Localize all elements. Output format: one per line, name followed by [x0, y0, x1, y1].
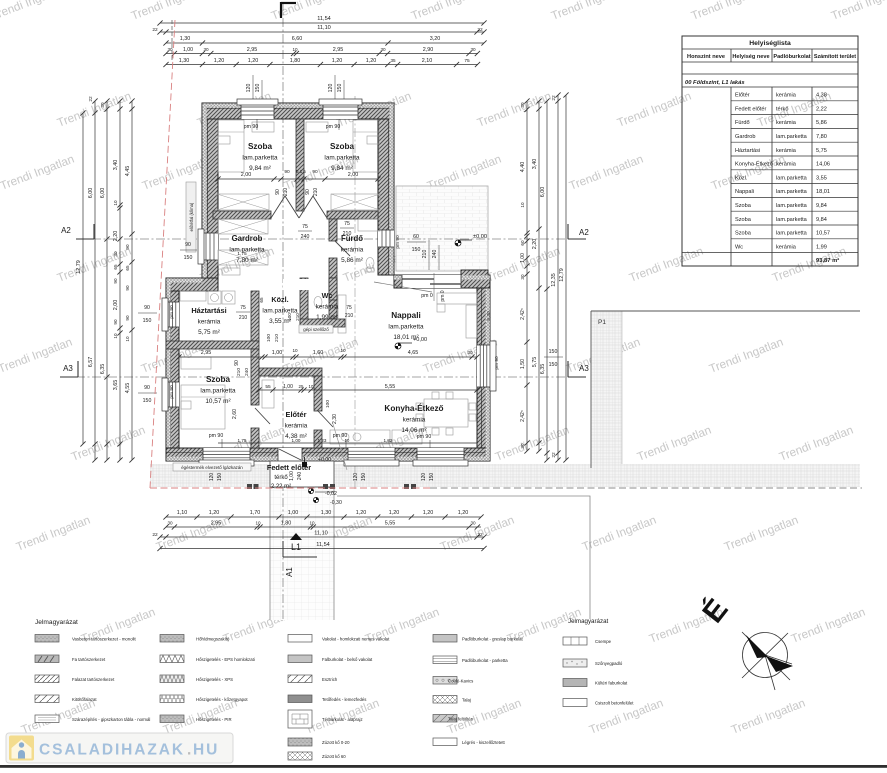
svg-text:1,30: 1,30	[180, 36, 191, 42]
svg-text:10: 10	[255, 521, 261, 526]
svg-text:150: 150	[143, 398, 152, 404]
counter haztartasi	[180, 291, 206, 301]
svg-text:90: 90	[144, 305, 150, 311]
svg-text:5,55: 5,55	[385, 384, 396, 390]
svg-text:1,20: 1,20	[423, 510, 434, 516]
svg-text:90: 90	[125, 285, 130, 291]
svg-text:75: 75	[344, 221, 350, 227]
svg-text:12,79: 12,79	[76, 260, 82, 274]
svg-text:előtétfal (klíma): előtétfal (klíma)	[189, 202, 194, 231]
svg-text:Helyiség neve: Helyiség neve	[732, 54, 769, 60]
svg-text:A2: A2	[61, 226, 71, 235]
boxed label wall shaft	[186, 182, 196, 252]
svg-text:240: 240	[301, 234, 310, 240]
closet szoba3	[181, 357, 211, 369]
svg-text:2,90: 2,90	[423, 47, 434, 53]
svg-text:1,20: 1,20	[458, 510, 469, 516]
svg-text:Szoba: Szoba	[248, 142, 273, 151]
svg-text:10: 10	[309, 521, 315, 526]
svg-text:22: 22	[152, 27, 158, 33]
tv cabinet nappali	[338, 295, 346, 333]
svg-text:11,10: 11,10	[314, 531, 328, 537]
boxed label gepi szellozes	[299, 325, 333, 333]
svg-text:10,57: 10,57	[816, 231, 830, 237]
svg-text:25: 25	[299, 384, 304, 389]
eloter east wall	[314, 376, 322, 411]
svg-text:5,75 m²: 5,75 m²	[198, 329, 220, 336]
svg-text:Háztartási: Háztartási	[735, 148, 760, 154]
szoba3 east wall	[251, 349, 259, 405]
window nappali right	[477, 345, 490, 387]
terrace corner wall piece	[461, 270, 488, 279]
drain symbols middle pair	[323, 484, 328, 489]
bottom dim chain detail2	[166, 526, 481, 528]
svg-text:90: 90	[275, 189, 281, 195]
bedroom door leaves zigzag	[271, 196, 327, 218]
svg-text:A3: A3	[63, 364, 73, 373]
axis line center vertical	[354, 96, 356, 490]
svg-text:3,40: 3,40	[532, 159, 538, 170]
svg-text:9,84 m²: 9,84 m²	[331, 165, 353, 172]
svg-text:1,75: 1,75	[237, 251, 247, 257]
svg-text:30: 30	[467, 350, 473, 355]
section line A2 horizontal	[76, 238, 580, 240]
svg-text:Tetőfedés - lemezfedés: Tetőfedés - lemezfedés	[322, 697, 366, 702]
bottom dim chain 11,54	[160, 548, 484, 550]
svg-text:14,06 m²: 14,06 m²	[401, 427, 426, 434]
svg-text:22: 22	[551, 95, 557, 101]
svg-text:Szoba: Szoba	[735, 217, 752, 223]
svg-text:210: 210	[343, 231, 352, 237]
left dim chain5	[131, 101, 133, 460]
interior dim chain bedrooms	[218, 178, 378, 180]
outer wall lower block right	[477, 288, 490, 448]
svg-text:Közl.: Közl.	[271, 295, 288, 304]
svg-text:2,00: 2,00	[348, 172, 359, 178]
insulation band lower stub top	[166, 278, 202, 282]
drain symbols right pair	[404, 484, 409, 489]
svg-text:lam.parketta: lam.parketta	[776, 217, 808, 223]
left dim chain3	[106, 101, 108, 460]
legend column 4	[433, 635, 457, 643]
svg-text:1,20: 1,20	[209, 510, 220, 516]
svg-text:6,00: 6,00	[540, 187, 546, 198]
svg-text:2,20: 2,20	[532, 239, 538, 250]
svg-text:30: 30	[167, 521, 173, 526]
svg-text:6,57: 6,57	[88, 357, 94, 368]
svg-text:5,86 m²: 5,86 m²	[341, 257, 363, 264]
svg-text:5,55: 5,55	[385, 521, 396, 527]
svg-text:kerámia: kerámia	[316, 304, 339, 311]
bottom border line	[0, 765, 887, 768]
svg-text:65: 65	[125, 265, 130, 271]
svg-text:120: 120	[421, 473, 427, 482]
svg-text:lam.parketta: lam.parketta	[262, 308, 298, 315]
svg-text:90: 90	[144, 385, 150, 391]
svg-text:Előtér: Előtér	[286, 410, 307, 419]
svg-text:6,60: 6,60	[292, 36, 303, 42]
svg-text:90: 90	[113, 278, 118, 284]
outer wall upper block left	[202, 119, 218, 278]
svg-text:210: 210	[313, 188, 319, 197]
svg-text:Térburkolat - alaprajz: Térburkolat - alaprajz	[322, 717, 363, 722]
bed szoba3	[181, 385, 225, 429]
svg-text:10: 10	[292, 47, 298, 52]
svg-text:+0,00: +0,00	[413, 337, 427, 343]
svg-text:90: 90	[185, 242, 191, 248]
svg-text:6,35: 6,35	[540, 364, 546, 375]
svg-text:3,55: 3,55	[816, 175, 827, 181]
sofa nappali	[437, 293, 477, 304]
bed bedroom2	[353, 120, 379, 172]
bed bedroom1	[218, 120, 244, 172]
svg-text:30: 30	[520, 443, 525, 449]
section marker A2 right	[567, 224, 569, 239]
svg-text:18,01: 18,01	[816, 189, 830, 195]
svg-text:120: 120	[328, 84, 334, 93]
red dashed property line diagonal	[150, 20, 175, 488]
window gardrob left	[202, 233, 218, 260]
svg-text:Csiszolt betonfelület: Csiszolt betonfelület	[595, 701, 634, 706]
dimension chain top detail2	[166, 64, 478, 66]
svg-text:9,84: 9,84	[816, 217, 827, 223]
svg-text:lam.parketta: lam.parketta	[776, 189, 808, 195]
dining table konyha	[424, 399, 468, 427]
svg-text:2,42⁵: 2,42⁵	[520, 410, 526, 422]
svg-text:1,00: 1,00	[289, 471, 295, 481]
svg-text:A3: A3	[579, 364, 589, 373]
svg-text:210: 210	[345, 313, 354, 319]
svg-text:kerámia: kerámia	[341, 247, 364, 254]
svg-text:3,20: 3,20	[430, 36, 441, 42]
svg-text:1,23: 1,23	[318, 438, 327, 443]
svg-text:75: 75	[302, 224, 308, 230]
outer wall upper block right	[378, 119, 394, 275]
svg-text:Talaj feltöltés: Talaj feltöltés	[448, 717, 473, 722]
svg-text:22: 22	[551, 452, 557, 458]
insulation band upper right wall	[389, 103, 393, 274]
svg-text:Padlóburkolat: Padlóburkolat	[773, 54, 810, 60]
svg-text:2,42⁵: 2,42⁵	[520, 308, 526, 320]
svg-text:10: 10	[125, 336, 130, 342]
bathroom west wall	[329, 219, 337, 241]
svg-text:Coulé-Kavics: Coulé-Kavics	[448, 679, 473, 684]
svg-text:Honszint neve: Honszint neve	[687, 54, 725, 60]
svg-text:1,00: 1,00	[183, 47, 193, 53]
svg-text:55: 55	[265, 384, 271, 390]
svg-text:lam.parketta: lam.parketta	[776, 134, 808, 140]
svg-text:Falburkolat - belső vakolat: Falburkolat - belső vakolat	[322, 657, 373, 662]
svg-text:90: 90	[305, 189, 311, 195]
svg-text:10: 10	[113, 333, 118, 339]
svg-text:2,60: 2,60	[232, 409, 238, 419]
svg-text:240: 240	[297, 472, 303, 481]
svg-text:pm 90: pm 90	[326, 124, 341, 130]
svg-text:Jelmagyarázat: Jelmagyarázat	[35, 619, 78, 626]
svg-text:pm 0: pm 0	[421, 293, 433, 299]
outer wall upper block top	[202, 103, 394, 119]
outer wall lower block left	[166, 291, 179, 448]
svg-text:5 1,5: 5 1,5	[296, 169, 306, 174]
svg-text:Légrés - kiszellőztetett: Légrés - kiszellőztetett	[462, 740, 506, 745]
svg-text:7,80 m²: 7,80 m²	[236, 257, 258, 264]
svg-text:90: 90	[312, 169, 318, 175]
svg-text:Hőhídmegszakító: Hőhídmegszakító	[196, 637, 230, 642]
svg-text:1,60: 1,60	[313, 350, 324, 356]
svg-text:Hőszigetelés - PIR: Hőszigetelés - PIR	[196, 717, 232, 722]
svg-text:Közl.: Közl.	[735, 175, 748, 181]
svg-text:6,00: 6,00	[88, 188, 94, 199]
svg-text:Csempe: Csempe	[595, 639, 612, 644]
svg-text:Nappali: Nappali	[391, 311, 421, 320]
boxed label gas boiler	[173, 463, 251, 471]
svg-text:Zúzott kő 0-20: Zúzott kő 0-20	[322, 740, 350, 745]
svg-text:1,30: 1,30	[321, 510, 332, 516]
wc south wall	[300, 319, 345, 327]
svg-text:5,75: 5,75	[532, 357, 538, 368]
svg-text:Szárazépítés - gipszkarton táb: Szárazépítés - gipszkarton tábla - normá…	[72, 717, 150, 722]
svg-text:5,75: 5,75	[816, 148, 827, 154]
svg-text:4,65: 4,65	[408, 350, 419, 356]
svg-text:1,50: 1,50	[520, 359, 526, 369]
svg-text:Vakolat - homlokzati nemes vak: Vakolat - homlokzati nemes vakolat	[322, 637, 390, 642]
haztartasi east wall	[251, 291, 259, 341]
svg-text:égéstermék elvezető lgázkazán: égéstermék elvezető lgázkazán	[181, 465, 243, 470]
svg-text:75: 75	[346, 305, 352, 311]
entrance walkway	[270, 487, 334, 620]
svg-text:150: 150	[184, 255, 193, 261]
toilet furdo	[366, 258, 374, 269]
right dim chain4	[557, 95, 559, 460]
legend zuzott ko 60	[288, 752, 312, 760]
svg-text:1,70: 1,70	[250, 510, 261, 516]
svg-text:lam.parketta: lam.parketta	[200, 388, 236, 395]
wc east wall	[329, 278, 337, 319]
svg-text:Talaj: Talaj	[462, 698, 471, 703]
svg-text:150: 150	[361, 473, 367, 482]
left dim total 12,79	[82, 113, 84, 444]
svg-text:4,40: 4,40	[520, 162, 526, 173]
svg-text:150: 150	[412, 247, 421, 253]
svg-text:3,65: 3,65	[113, 380, 119, 391]
svg-text:Nappali: Nappali	[735, 189, 754, 195]
svg-text:4,38: 4,38	[816, 93, 827, 99]
svg-text:2,00: 2,00	[241, 172, 252, 178]
svg-text:100: 100	[266, 334, 272, 342]
svg-text:pm 90: pm 90	[395, 235, 401, 249]
gardrob sink counter	[222, 268, 240, 275]
closet eloter	[262, 380, 274, 408]
outer wall lower block bottom	[166, 448, 490, 461]
svg-text:30: 30	[520, 274, 525, 280]
svg-text:térkő: térkő	[776, 106, 788, 112]
svg-text:5,86: 5,86	[816, 120, 827, 126]
svg-text:60: 60	[413, 234, 419, 240]
svg-text:gépi szellőző: gépi szellőző	[303, 327, 329, 332]
svg-text:4,45: 4,45	[125, 166, 131, 177]
svg-text:4,55: 4,55	[125, 383, 131, 394]
svg-text:1,00: 1,00	[283, 384, 293, 390]
svg-text:30: 30	[470, 521, 476, 526]
svg-text:pm 90: pm 90	[244, 124, 259, 130]
svg-text:10,57 m²: 10,57 m²	[205, 398, 230, 405]
svg-text:240: 240	[244, 368, 250, 376]
desk bedroom1	[252, 122, 274, 132]
interior dim chain konyha	[259, 389, 477, 391]
svg-text:1,20: 1,20	[248, 58, 259, 64]
insulation band lower right wall	[486, 288, 490, 460]
svg-text:Szoba: Szoba	[330, 142, 355, 151]
svg-text:22: 22	[477, 532, 483, 538]
svg-text:22: 22	[88, 96, 94, 102]
svg-text:90: 90	[113, 319, 118, 325]
window haztartasi left	[166, 302, 179, 327]
svg-text:HU: HU	[193, 742, 219, 759]
hall opening gap in band	[283, 279, 313, 290]
svg-text:1,10: 1,10	[177, 510, 188, 516]
wardrobe bedroom1	[217, 194, 269, 210]
bottom inner dim chain	[218, 442, 477, 444]
svg-text:1,20: 1,20	[389, 510, 400, 516]
svg-text:30: 30	[203, 47, 209, 52]
svg-text:120: 120	[246, 84, 252, 93]
svg-text:Hőszigetelés - EPS homlokzati: Hőszigetelés - EPS homlokzati	[196, 657, 255, 662]
svg-text:1,99 m²: 1,99 m²	[316, 314, 338, 321]
svg-text:Jelmagyarázat: Jelmagyarázat	[568, 618, 609, 625]
outer wall lower block top-right (terrace side)	[394, 275, 490, 288]
svg-text:lam.parketta: lam.parketta	[242, 155, 278, 162]
perimeter paving strip bottom	[150, 464, 860, 487]
table helyiseglista	[682, 36, 858, 266]
svg-text:CSALADIHAZAK: CSALADIHAZAK	[39, 742, 185, 759]
nappali half wall	[329, 278, 337, 300]
svg-text:22: 22	[477, 27, 483, 33]
svg-text:Hőszigetelés - XPS: Hőszigetelés - XPS	[196, 677, 233, 682]
wc west wall	[300, 278, 308, 327]
svg-text:1,80: 1,80	[281, 521, 292, 527]
svg-text:kerámia: kerámia	[776, 148, 797, 154]
window bedroom1 top	[241, 103, 274, 119]
bathroom door leaf	[335, 241, 350, 256]
svg-text:210: 210	[283, 188, 289, 197]
left dim chain2	[94, 101, 96, 460]
insulation band bottom wall	[166, 457, 489, 461]
legend column 5	[563, 637, 587, 645]
logo csaladihazak.hu	[6, 733, 233, 763]
svg-text:pm 90: pm 90	[494, 356, 500, 370]
svg-text:2,30: 2,30	[332, 414, 338, 424]
svg-text:lam.parketta: lam.parketta	[324, 155, 360, 162]
svg-text:Szoba: Szoba	[735, 203, 752, 209]
dimension chain top 11,10	[160, 31, 484, 33]
svg-text:2,10: 2,10	[422, 58, 433, 64]
svg-text:1,00: 1,00	[288, 510, 299, 516]
section marker A2 left	[93, 224, 95, 239]
svg-text:kerámia: kerámia	[285, 423, 308, 430]
interior wall below bedrooms east	[327, 211, 378, 219]
right dim chain1	[526, 101, 528, 451]
insulation band top wall	[202, 103, 393, 107]
compass rose	[742, 632, 792, 690]
svg-text:-0,30: -0,30	[330, 500, 342, 506]
svg-text:11,54: 11,54	[316, 542, 330, 548]
svg-text:Gardrob: Gardrob	[232, 234, 263, 243]
drain symbols left pair	[247, 484, 252, 489]
svg-text:1,75: 1,75	[238, 438, 247, 443]
stair arrow porch	[333, 424, 347, 470]
svg-text:150: 150	[549, 349, 558, 355]
svg-text:1,80: 1,80	[290, 58, 301, 64]
bathtub furdo	[358, 219, 380, 231]
svg-text:1,20: 1,20	[356, 510, 367, 516]
dashed site line horizontal right	[430, 487, 862, 489]
svg-text:90: 90	[284, 169, 290, 175]
svg-text:Fa tartószerkezet: Fa tartószerkezet	[72, 657, 106, 662]
svg-text:90: 90	[125, 315, 130, 321]
porch fedett eloter outline	[270, 461, 334, 487]
window szoba3 left	[166, 382, 179, 407]
window szoba3 bottom	[203, 448, 250, 461]
svg-text:L1: L1	[291, 542, 301, 552]
svg-text:5,30: 5,30	[486, 311, 492, 321]
svg-text:1,99: 1,99	[816, 244, 827, 250]
svg-text:Hőszigetelés - kőzetgyapot: Hőszigetelés - kőzetgyapot	[196, 697, 248, 702]
svg-text:75: 75	[240, 305, 246, 311]
outer wall lower block top-left stub	[166, 278, 218, 291]
svg-text:240: 240	[432, 250, 438, 259]
svg-text:10: 10	[340, 348, 346, 353]
insulation band lower left wall	[166, 278, 170, 447]
svg-text:Szoba: Szoba	[206, 375, 231, 384]
svg-text:Wc: Wc	[735, 244, 743, 250]
paving strip right vertical	[591, 311, 622, 464]
svg-text:75: 75	[464, 58, 470, 64]
svg-text:00 Földszint, L1 lakás: 00 Földszint, L1 lakás	[685, 80, 745, 86]
dimension chain top detail1	[166, 53, 478, 55]
porch steps	[315, 486, 334, 488]
svg-text:kerámia: kerámia	[776, 93, 797, 99]
svg-text:1,30: 1,30	[179, 58, 190, 64]
wardrobe gardrob row1	[218, 219, 268, 234]
svg-text:10: 10	[345, 438, 350, 443]
svg-text:6,35: 6,35	[100, 364, 106, 375]
svg-text:térkő: térkő	[274, 475, 288, 481]
svg-text:30: 30	[380, 47, 386, 52]
right dim chain2	[538, 101, 540, 451]
svg-text:Padlóburkolat - greslap burkol: Padlóburkolat - greslap burkolat	[462, 637, 523, 642]
szoba3 door leaf	[255, 408, 270, 424]
svg-text:35: 35	[390, 58, 396, 63]
svg-text:150: 150	[549, 362, 558, 368]
svg-text:10: 10	[292, 348, 298, 353]
svg-text:Fedett előtér: Fedett előtér	[735, 106, 767, 112]
eloter north wall	[259, 368, 322, 376]
svg-text:lam.parketta: lam.parketta	[776, 231, 808, 237]
svg-text:lam.parketta: lam.parketta	[229, 247, 265, 254]
svg-text:14,06: 14,06	[816, 162, 830, 168]
eloter door leaf	[318, 411, 333, 427]
insulation band upper left wall	[202, 103, 206, 277]
insulation band terrace top wall	[394, 275, 490, 279]
bottom dim chain detail1	[166, 516, 481, 518]
terrace sliding door	[402, 275, 461, 288]
elevation marks porch	[308, 488, 313, 493]
window konyha bottom1	[348, 448, 395, 461]
svg-text:30: 30	[470, 47, 476, 52]
interior wall below bedrooms west	[213, 211, 271, 219]
svg-text:10: 10	[520, 202, 525, 208]
svg-text:2,22: 2,22	[816, 106, 827, 112]
